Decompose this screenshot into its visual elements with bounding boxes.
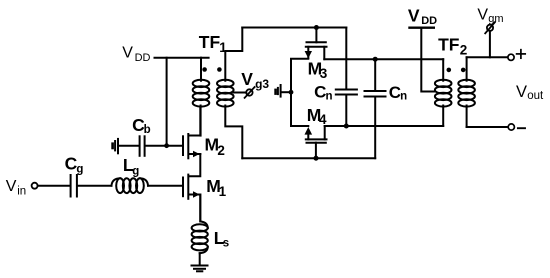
wire Cb to M2 gate bbox=[146, 145, 183, 147]
capacitor Cn2 bbox=[365, 59, 386, 158]
node minus terminal bbox=[508, 124, 514, 130]
node M3 gate junction bbox=[314, 25, 319, 30]
svg-text:g: g bbox=[132, 165, 139, 177]
svg-text:s: s bbox=[223, 237, 229, 249]
wire M4 drain rail to TF2 bbox=[325, 125, 444, 127]
transistor M1 bbox=[183, 154, 200, 221]
transformer TF2 dots bbox=[447, 68, 452, 73]
wire top rail TF1 to M3 gate to Cn1 bbox=[242, 27, 346, 29]
svg-text:n: n bbox=[400, 91, 407, 103]
node Vgm label bbox=[477, 7, 503, 25]
transformer TF2 label bbox=[438, 35, 467, 58]
wire M3 drain rail to TF2 bbox=[324, 58, 443, 60]
AC ground at Cb bbox=[113, 139, 139, 153]
wire Vin to Cg bbox=[38, 185, 70, 187]
svg-text:V: V bbox=[122, 44, 133, 61]
transistor M1 label bbox=[206, 176, 226, 199]
wire VDD to TF2 center tap bbox=[421, 28, 435, 92]
transistor M4 label bbox=[307, 105, 327, 127]
capacitor Cg bbox=[70, 175, 72, 197]
capacitor Cn2 label bbox=[389, 83, 407, 103]
transformer TF2 secondary winding bbox=[458, 57, 475, 127]
node Vgm bias bbox=[485, 22, 495, 57]
inductor Lg label bbox=[123, 155, 139, 177]
wire Cg to Lg bbox=[78, 185, 112, 187]
node Vg3 label bbox=[241, 69, 269, 91]
AC ground at M3/M4 sources bbox=[276, 85, 291, 97]
inductor Ls bbox=[192, 195, 208, 266]
svg-text:TF: TF bbox=[199, 32, 221, 52]
svg-text:g: g bbox=[76, 164, 83, 176]
node Vin terminal bbox=[32, 183, 38, 189]
transistor M2 bbox=[183, 107, 200, 158]
capacitor Cb label bbox=[132, 115, 151, 136]
transformer TF1 primary winding bbox=[193, 58, 210, 136]
svg-text:n: n bbox=[326, 90, 333, 102]
node plus terminal bbox=[508, 54, 514, 60]
wire TF2 to plus terminal bbox=[467, 56, 508, 58]
node Cn1 bottom junction bbox=[344, 124, 349, 129]
node Cn2 top junction bbox=[373, 57, 378, 62]
svg-text:gm: gm bbox=[488, 13, 503, 25]
node source junction bbox=[289, 90, 294, 95]
transformer TF1 secondary winding bbox=[217, 28, 242, 159]
svg-text:DD: DD bbox=[421, 15, 437, 27]
svg-text:4: 4 bbox=[319, 112, 327, 127]
svg-text:g3: g3 bbox=[255, 77, 269, 91]
node Vout label bbox=[516, 83, 544, 102]
wire TF2 to minus terminal bbox=[467, 126, 509, 128]
svg-text:V: V bbox=[408, 5, 420, 25]
svg-text:DD: DD bbox=[135, 52, 151, 64]
svg-text:3: 3 bbox=[320, 66, 328, 81]
transistor M4 bbox=[291, 126, 327, 158]
supply VDD label right bbox=[408, 5, 437, 27]
svg-text:V: V bbox=[516, 83, 527, 101]
wire Lg to M1 gate bbox=[148, 185, 183, 187]
wire Cb junction to VDD rail bbox=[166, 58, 168, 146]
svg-text:V: V bbox=[477, 7, 488, 24]
inductor Ls label bbox=[214, 228, 229, 249]
node Vg3 bias tap bbox=[234, 87, 255, 98]
transformer TF2 primary winding bbox=[435, 59, 452, 126]
node Vin label bbox=[6, 178, 26, 198]
inductor Lg bbox=[112, 178, 149, 193]
svg-text:1: 1 bbox=[219, 184, 227, 199]
wire bottom rail TF1 to M4 gate to Cn2 bbox=[242, 157, 375, 159]
svg-text:b: b bbox=[144, 124, 151, 136]
capacitor Cg label bbox=[65, 153, 84, 175]
transistor M3 bbox=[291, 28, 327, 127]
svg-text:2: 2 bbox=[217, 143, 225, 158]
ground bbox=[192, 266, 208, 272]
supply VDD bar bbox=[410, 27, 434, 29]
transistor M3 label bbox=[308, 59, 328, 81]
capacitor Cb bbox=[139, 136, 141, 156]
svg-text:V: V bbox=[241, 69, 253, 89]
capacitor Cn1 label bbox=[314, 82, 332, 102]
transistor M2 label bbox=[205, 135, 225, 158]
svg-text:TF: TF bbox=[438, 35, 460, 55]
svg-text:2: 2 bbox=[460, 43, 468, 58]
transformer TF1 dots bbox=[202, 67, 207, 72]
svg-text:V: V bbox=[6, 178, 17, 195]
capacitor Cn1 bbox=[336, 28, 357, 127]
supply VDD label left bbox=[122, 44, 150, 64]
transformer TF1 label bbox=[199, 32, 228, 55]
wire VDD rail bbox=[155, 57, 209, 59]
node M4 gate junction bbox=[314, 156, 319, 161]
node Cb junction bbox=[164, 143, 169, 148]
svg-text:in: in bbox=[17, 186, 26, 198]
svg-text:out: out bbox=[527, 90, 544, 102]
